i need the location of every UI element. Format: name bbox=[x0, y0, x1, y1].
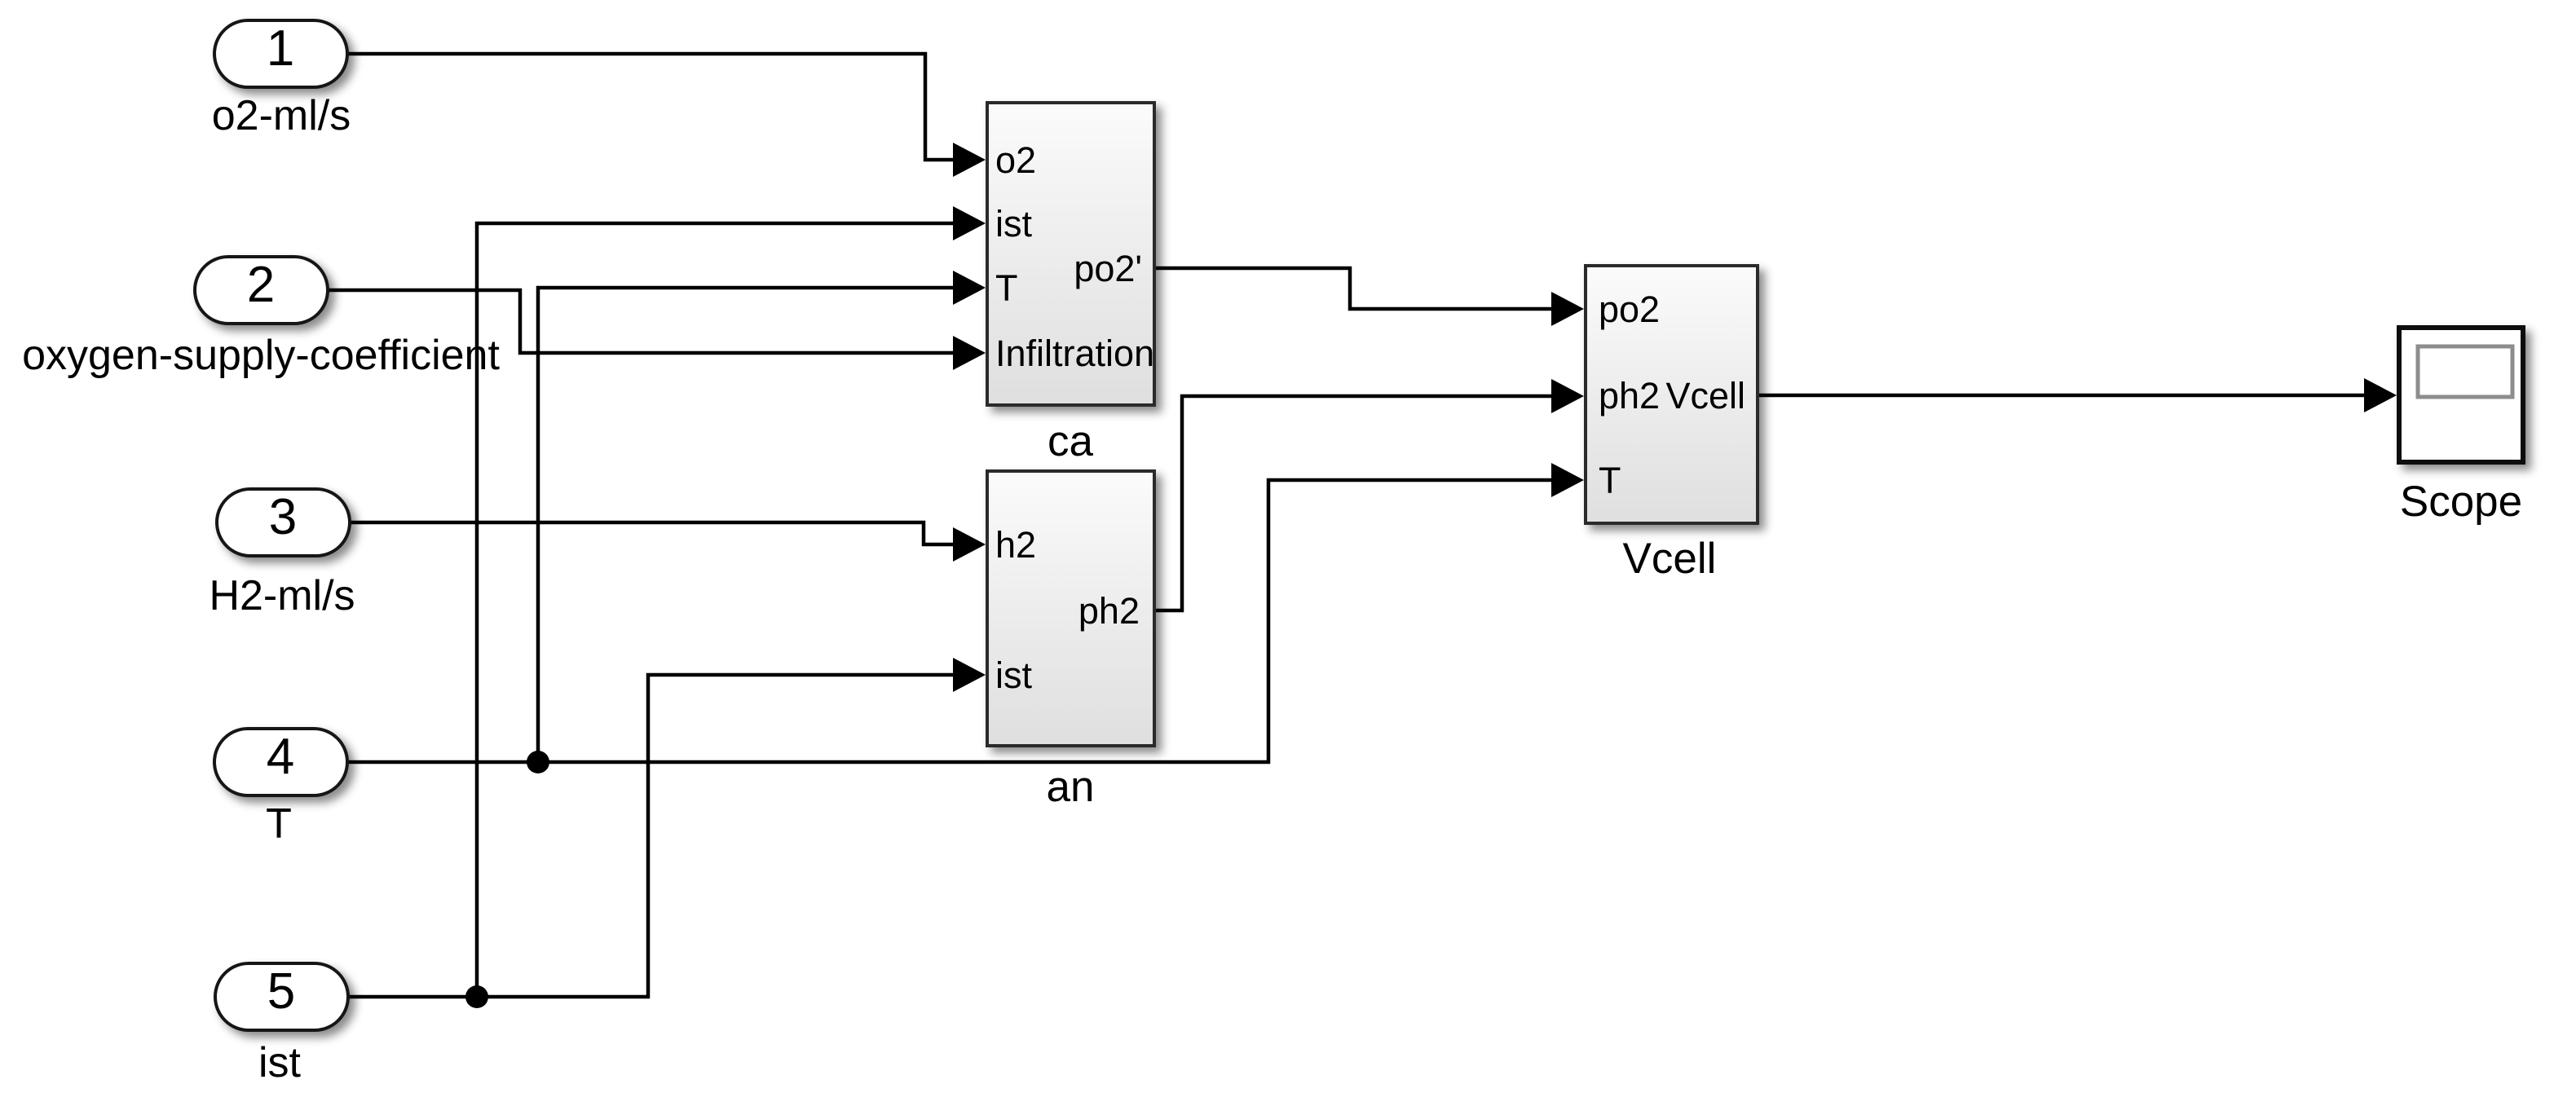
svg-text:T: T bbox=[995, 267, 1018, 309]
svg-text:ph2: ph2 bbox=[1599, 375, 1660, 416]
svg-text:ph2: ph2 bbox=[1078, 590, 1140, 632]
svg-text:ist: ist bbox=[995, 203, 1032, 245]
svg-text:Vcell: Vcell bbox=[1623, 535, 1717, 583]
svg-text:H2-ml/s: H2-ml/s bbox=[209, 572, 355, 619]
svg-text:5: 5 bbox=[267, 963, 295, 1020]
svg-text:po2: po2 bbox=[1599, 289, 1660, 330]
svg-text:an: an bbox=[1047, 763, 1095, 811]
svg-text:h2: h2 bbox=[995, 524, 1036, 566]
svg-text:ca: ca bbox=[1048, 417, 1094, 465]
svg-text:o2: o2 bbox=[995, 139, 1036, 181]
svg-text:Scope: Scope bbox=[2400, 478, 2522, 526]
svg-text:po2': po2' bbox=[1074, 248, 1142, 289]
svg-text:4: 4 bbox=[267, 729, 294, 785]
svg-text:o2-ml/s: o2-ml/s bbox=[212, 92, 351, 139]
svg-text:oxygen-supply-coefficient: oxygen-supply-coefficient bbox=[22, 332, 500, 379]
svg-text:T: T bbox=[1599, 460, 1621, 501]
svg-text:T: T bbox=[266, 800, 292, 848]
svg-text:ist: ist bbox=[995, 654, 1032, 696]
svg-text:Vcell: Vcell bbox=[1665, 375, 1745, 416]
svg-text:ist: ist bbox=[258, 1039, 302, 1086]
svg-text:3: 3 bbox=[269, 489, 297, 545]
svg-text:2: 2 bbox=[247, 257, 275, 313]
svg-text:1: 1 bbox=[267, 20, 294, 77]
svg-text:Infiltration: Infiltration bbox=[995, 333, 1154, 374]
